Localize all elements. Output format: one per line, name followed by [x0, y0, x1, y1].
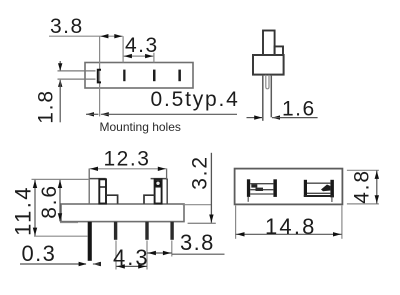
svg-text:Mounting holes: Mounting holes: [100, 120, 181, 134]
svg-text:11.4: 11.4: [11, 185, 36, 236]
svg-text:4.3: 4.3: [113, 245, 150, 270]
svg-text:0.3: 0.3: [22, 241, 57, 266]
svg-text:0.5typ.4: 0.5typ.4: [151, 88, 240, 111]
svg-text:4.8: 4.8: [351, 169, 374, 204]
svg-text:3.2: 3.2: [189, 155, 212, 190]
svg-text:12.3: 12.3: [104, 148, 151, 171]
svg-text:3.8: 3.8: [180, 230, 215, 255]
svg-text:8.6: 8.6: [38, 184, 61, 219]
svg-text:1.6: 1.6: [282, 98, 316, 121]
svg-text:3.8: 3.8: [50, 15, 84, 38]
svg-text:1.8: 1.8: [35, 89, 58, 124]
svg-text:14.8: 14.8: [265, 214, 317, 239]
